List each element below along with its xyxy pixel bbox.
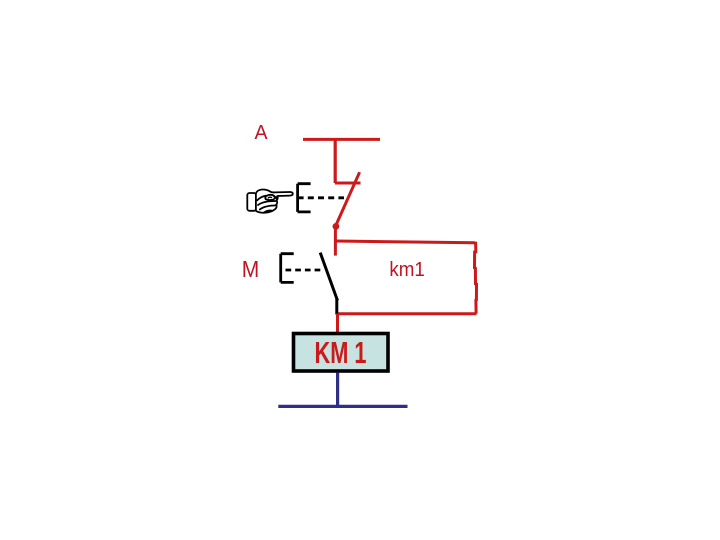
wire: black stub below start contact (335, 299, 338, 315)
wire: blue drop from coil (336, 373, 339, 407)
start button SB2 moving contact (NO diagonal) (320, 253, 337, 301)
pointing hand icon (247, 189, 292, 212)
label km1 (389, 258, 425, 281)
start button linkage (dashed) (286, 269, 325, 272)
node A label (255, 122, 269, 144)
stop button linkage (dashed) (298, 196, 344, 199)
svg-text:M: M (242, 256, 259, 282)
stop button SB1 fixed contact bar (335, 182, 361, 185)
wire: red drop to coil (336, 314, 339, 333)
wire: stub below junction dot (334, 226, 337, 256)
wire: top supply rail (303, 138, 380, 141)
label M (242, 256, 259, 282)
stop button actuator bracket (298, 184, 311, 212)
wire: bottom neutral rail (278, 405, 407, 408)
junction dot (333, 223, 340, 230)
svg-text:A: A (255, 122, 269, 144)
wire: self-hold branch bottom (337, 312, 477, 315)
label KM 1 (315, 335, 367, 370)
coil KM1 box (294, 334, 389, 372)
stop button SB1 moving contact (NC diagonal) (336, 172, 360, 225)
wire: self-hold branch top (335, 241, 474, 243)
svg-text:KM 1: KM 1 (315, 335, 367, 370)
km1 auxiliary contact right edge (475, 242, 477, 314)
start button actuator bracket (281, 254, 294, 283)
wire: vertical drop from rail to stop contact (334, 139, 337, 183)
svg-text:km1: km1 (389, 258, 425, 281)
